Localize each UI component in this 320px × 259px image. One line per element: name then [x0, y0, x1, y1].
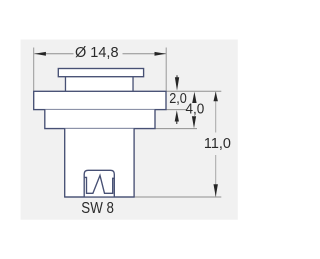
part top cap: [58, 69, 143, 77]
wire: extension line y=109.6: [166, 109, 186, 111]
wire: right extension line: [165, 48, 167, 91]
arrow 11,0 bottom (down): [214, 184, 218, 197]
arrow 2,0 bottom (up): [175, 110, 179, 121]
part bottom line: [65, 196, 135, 198]
arrow 4,0 top (up): [192, 92, 196, 103]
wire: 11,0 dimension vertical lower: [215, 155, 217, 197]
part tier2: [45, 110, 155, 129]
part neck: [66, 77, 134, 92]
arrow 4,0 bottom (down): [192, 116, 196, 128]
svg-text:4,0: 4,0: [186, 102, 205, 118]
arrow 2,0 top (down): [175, 77, 179, 91]
svg-text:11,0: 11,0: [204, 136, 231, 152]
wire: extension line y=91.3 to right: [166, 90, 221, 92]
part flange: [34, 91, 166, 109]
arrow 11,0 top (up): [214, 92, 218, 102]
svg-text:Ø 14,8: Ø 14,8: [75, 45, 119, 61]
svg-text:SW 8: SW 8: [81, 200, 114, 217]
part body: [65, 129, 134, 197]
part slot: [84, 170, 114, 197]
wire: left extension line: [33, 48, 35, 91]
arrow right of diameter dim: [155, 52, 167, 56]
wire: bottom extension line: [135, 196, 222, 198]
wire: top dimension line left segment: [34, 53, 73, 55]
wire: top dimension line right segment: [123, 53, 167, 55]
wire: 11,0 dimension vertical upper: [215, 91, 217, 132]
part inner contact contour: [84, 175, 114, 193]
svg-text:2,0: 2,0: [169, 91, 187, 107]
wire: extension line y=128.6: [155, 128, 197, 130]
arrow left of diameter dim: [34, 52, 46, 56]
background panel: [21, 40, 238, 220]
